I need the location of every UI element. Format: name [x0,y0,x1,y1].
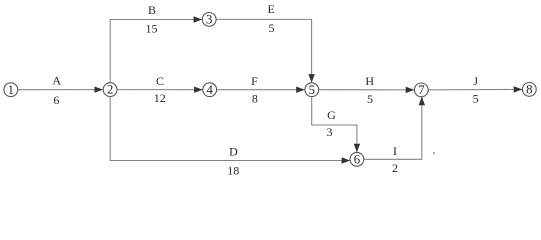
svg-text:6: 6 [354,152,361,166]
svg-text:H: H [365,74,374,88]
svg-text:A: A [52,74,61,88]
svg-text:7: 7 [418,83,425,97]
svg-text:2: 2 [107,83,113,97]
svg-text:J: J [473,74,478,88]
svg-text:D: D [229,145,238,159]
svg-text:B: B [148,3,156,17]
svg-text:1: 1 [8,83,14,97]
svg-text:2: 2 [392,161,398,175]
svg-text:3: 3 [206,13,212,27]
svg-text:5: 5 [309,83,315,97]
svg-text:5: 5 [367,92,373,106]
svg-text:G: G [327,108,336,122]
svg-text:5: 5 [473,92,479,106]
svg-text:E: E [268,2,275,16]
svg-text:12: 12 [154,91,166,105]
svg-text:3: 3 [327,125,333,139]
svg-text:4: 4 [206,83,213,97]
svg-text:5: 5 [269,21,275,35]
svg-text:I: I [393,144,397,158]
svg-text:15: 15 [146,22,158,36]
svg-text:18: 18 [227,163,239,177]
svg-text:C: C [156,74,164,88]
svg-text:8: 8 [252,92,258,106]
svg-text:F: F [251,74,258,88]
svg-text:8: 8 [526,83,532,97]
svg-text:6: 6 [53,93,59,107]
